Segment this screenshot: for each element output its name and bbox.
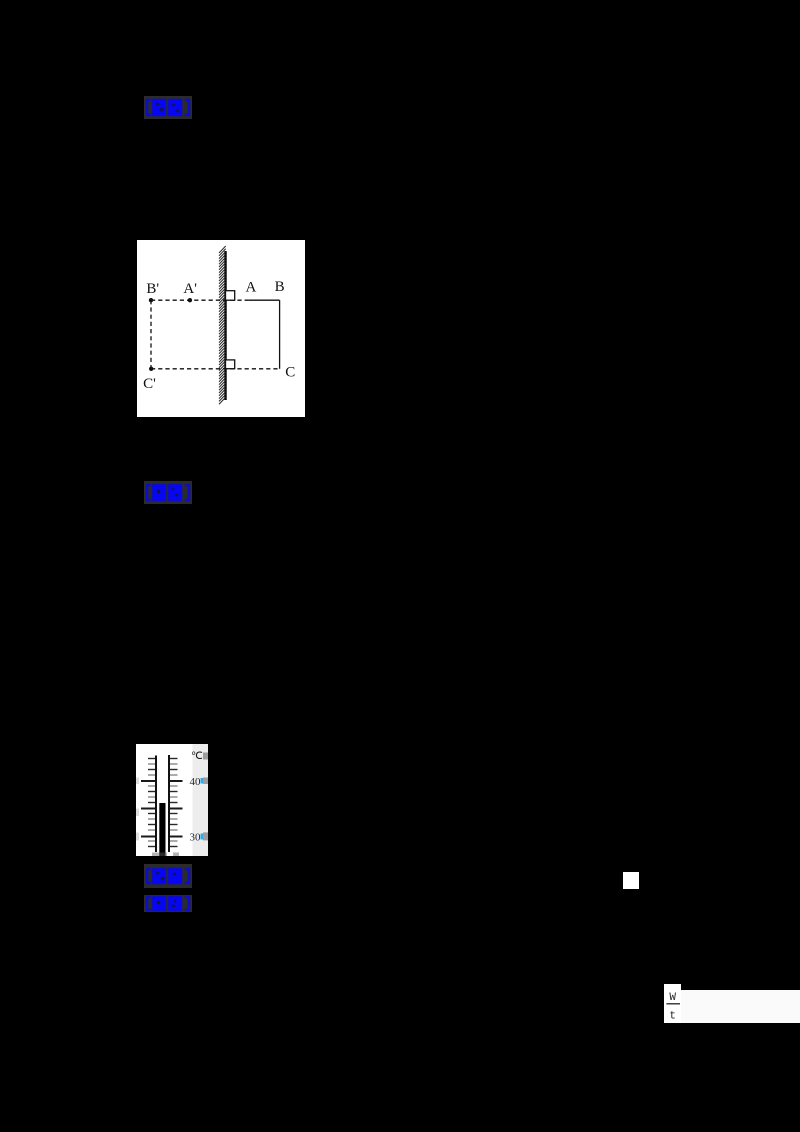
- svg-text:40: 40: [190, 776, 202, 788]
- svg-text:B: B: [275, 279, 285, 295]
- svg-text:B': B': [146, 281, 159, 297]
- svg-text:t: t: [669, 1011, 676, 1023]
- svg-text:C: C: [285, 364, 295, 380]
- svg-text:C': C': [143, 375, 156, 391]
- svg-text:A': A': [183, 281, 197, 297]
- svg-text:30: 30: [190, 832, 202, 844]
- svg-text:W: W: [669, 992, 676, 1004]
- svg-text:℃: ℃: [191, 751, 203, 762]
- svg-text:A: A: [245, 279, 256, 295]
